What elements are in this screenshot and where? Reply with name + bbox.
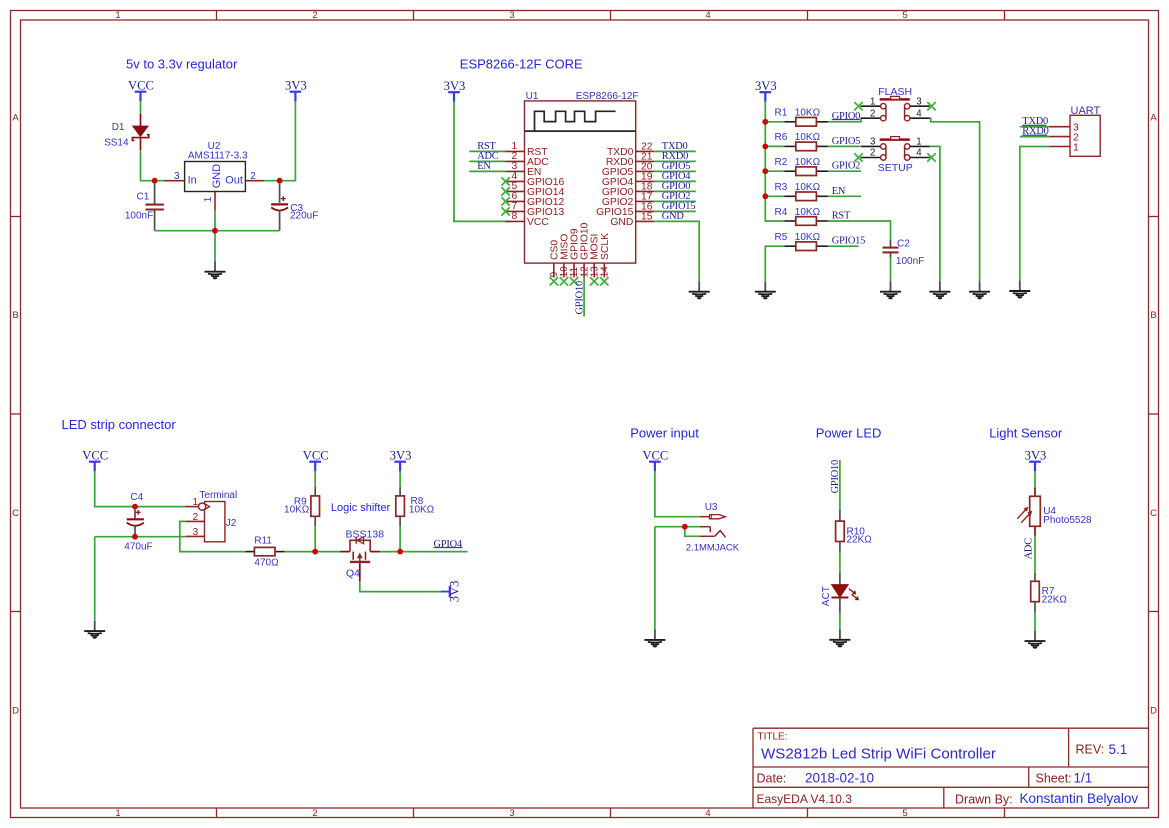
wire R1 to FLASH pin2 / net GPIO0 — [828, 111, 861, 122]
svg-text:B: B — [1150, 310, 1156, 321]
net stub GPIO5 (U1 pin 20) — [654, 161, 696, 172]
regulator U2 AMS1117-3.3 — [164, 141, 264, 210]
wire R6 to SETUP pin3 / net GPIO5 — [828, 136, 860, 147]
svg-text:10KΩ: 10KΩ — [795, 207, 821, 218]
svg-text:2: 2 — [870, 148, 875, 159]
wire R7 to ground — [1034, 613, 1036, 631]
net stub GPIO4 (U1 pin 19) — [654, 171, 696, 182]
svg-text:3: 3 — [870, 137, 875, 148]
svg-text:100nF: 100nF — [896, 256, 924, 267]
svg-text:1: 1 — [870, 96, 875, 107]
junction node C4 bottom — [132, 534, 138, 540]
svg-text:VCC: VCC — [303, 448, 329, 462]
net stub GPIO10 (U1 pin 12) — [574, 277, 585, 316]
U1 bottom pins 9-14 leads, names and numbers — [549, 222, 611, 277]
svg-text:Terminal: Terminal — [199, 490, 237, 501]
junction node In/C1 — [152, 178, 158, 184]
svg-text:GPIO2: GPIO2 — [832, 161, 860, 172]
svg-text:A: A — [12, 113, 19, 124]
svg-text:GPIO10: GPIO10 — [574, 281, 585, 314]
svg-text:C2: C2 — [897, 238, 910, 249]
wire R11 to Q4 — [285, 551, 340, 553]
no-connect SETUP pin4 — [927, 153, 935, 161]
svg-text:2: 2 — [250, 171, 256, 182]
svg-text:EN: EN — [477, 161, 491, 172]
svg-text:VCC: VCC — [128, 78, 154, 92]
wire rail to ground — [94, 537, 96, 621]
svg-text:1/1: 1/1 — [1074, 771, 1093, 786]
svg-text:Out: Out — [225, 175, 243, 187]
power flag VCC (regulator input) — [128, 78, 154, 101]
svg-text:8: 8 — [511, 211, 517, 222]
svg-text:GND: GND — [211, 164, 223, 189]
svg-text:2: 2 — [193, 512, 199, 523]
svg-text:1: 1 — [1073, 141, 1079, 153]
svg-text:SETUP: SETUP — [878, 162, 913, 174]
power flag VCC (R9) — [303, 448, 329, 471]
svg-text:5v to 3.3v regulator: 5v to 3.3v regulator — [126, 56, 238, 71]
svg-text:470Ω: 470Ω — [254, 558, 279, 569]
svg-text:C: C — [12, 508, 19, 519]
net stub GND (U1 pin 15) to ground — [654, 211, 699, 281]
wire 3V3 to U4 — [1034, 471, 1036, 487]
svg-text:Konstantin Belyalov: Konstantin Belyalov — [1020, 791, 1139, 806]
svg-text:TITLE:: TITLE: — [758, 732, 788, 743]
net stub GPIO2 at R2 — [828, 161, 861, 172]
svg-text:1: 1 — [916, 137, 921, 148]
svg-text:VCC: VCC — [527, 217, 549, 228]
ground (SETUP) — [929, 281, 950, 298]
no-connect flags U1 pins 9,10,11,13,14 — [550, 277, 609, 285]
capacitor C1 100nF — [125, 184, 164, 231]
resistor R2 10KOhm — [765, 157, 828, 176]
net stub GPIO0 (U1 pin 18) — [654, 181, 696, 192]
resistor R9 10KOhm — [284, 471, 319, 551]
svg-text:C4: C4 — [130, 492, 143, 503]
svg-text:1: 1 — [115, 808, 120, 819]
svg-text:ESP8266-12F: ESP8266-12F — [576, 91, 639, 102]
svg-text:GND: GND — [662, 211, 685, 222]
svg-text:4: 4 — [916, 108, 922, 119]
ground (FLASH) — [969, 281, 990, 298]
resistor R11 470Ohm — [245, 536, 284, 569]
ground (LED connector) — [84, 621, 105, 638]
ground (regulator) — [205, 261, 226, 278]
capacitor C2 100nF — [883, 238, 925, 281]
power flag 3V3 (regulator output) — [285, 78, 307, 101]
connector J2 Terminal — [185, 490, 237, 542]
wire 3V3 pull-up rail — [765, 102, 784, 221]
svg-text:1: 1 — [203, 196, 214, 202]
svg-text:3V3: 3V3 — [1025, 448, 1047, 462]
svg-text:3V3: 3V3 — [447, 581, 461, 603]
svg-text:B: B — [12, 310, 18, 321]
svg-text:2: 2 — [312, 10, 317, 21]
svg-text:U1: U1 — [526, 91, 539, 102]
svg-text:2: 2 — [870, 108, 875, 119]
net stub ADC (sensor divider) — [1023, 536, 1035, 573]
no-connect flags U1 pins 4-7 — [501, 177, 509, 215]
junction nodes on 3V3 rail — [762, 119, 768, 199]
net stub GPIO10 (LED drive) — [830, 460, 841, 510]
svg-text:220uF: 220uF — [290, 211, 318, 222]
net stub TXD0 (U1 pin 22) — [654, 141, 696, 152]
svg-text:10KΩ: 10KΩ — [795, 132, 821, 143]
svg-text:A: A — [1150, 113, 1157, 124]
svg-text:In: In — [188, 175, 197, 187]
wire ground rail C1-C3 — [155, 230, 280, 232]
U1 right pins 22-15 leads and numbers — [596, 142, 654, 228]
wire jack sleeve — [655, 527, 700, 537]
no-connect FLASH pin1 — [854, 102, 862, 110]
svg-text:10KΩ: 10KΩ — [795, 108, 821, 119]
barrel jack U3 2.1MMJACK — [686, 502, 740, 553]
svg-text:U3: U3 — [705, 502, 718, 513]
wire ground rail to J2 pin3 — [95, 536, 186, 538]
pushbutton FLASH — [861, 86, 930, 121]
svg-text:15: 15 — [641, 212, 653, 223]
wire VCC to J2 pin1 — [95, 471, 135, 506]
svg-text:D1: D1 — [112, 122, 125, 133]
ground (C2) — [880, 281, 901, 298]
svg-text:3: 3 — [174, 171, 180, 182]
svg-text:4: 4 — [705, 10, 710, 21]
svg-text:470uF: 470uF — [124, 542, 152, 553]
capacitor C3 220uF (polarized) — [271, 184, 318, 231]
wire rail to ground — [214, 231, 216, 262]
wire UART pin1 to ground — [1020, 147, 1050, 281]
svg-text:10KΩ: 10KΩ — [795, 182, 821, 193]
svg-text:WS2812b Led Strip WiFi Control: WS2812b Led Strip WiFi Controller — [761, 746, 996, 763]
capacitor C4 470uF (polarized) — [124, 492, 152, 553]
resistor R8 10KOhm — [396, 471, 435, 551]
junction node R9/R11 — [312, 549, 318, 555]
power flag 3V3 (pull-up rail) — [755, 79, 777, 102]
photoresistor U4 Photo5528 — [1017, 487, 1092, 535]
svg-text:5.1: 5.1 — [1109, 742, 1128, 757]
net stub GPIO2 (U1 pin 17) — [654, 191, 696, 202]
svg-text:R4: R4 — [775, 207, 788, 218]
svg-text:4: 4 — [705, 808, 710, 819]
svg-text:GND: GND — [610, 217, 633, 228]
junction node Out/C3 — [277, 178, 283, 184]
wire SETUP pin1 to ground — [930, 146, 940, 281]
svg-text:22KΩ: 22KΩ — [1042, 594, 1068, 605]
svg-text:3V3: 3V3 — [285, 78, 307, 92]
wire J2 pin2 to R11 — [180, 521, 246, 551]
wire U2 Out to 3V3 — [264, 101, 296, 180]
net stub RST (U1 pin1) — [469, 141, 505, 152]
svg-text:2.1MMJACK: 2.1MMJACK — [686, 542, 740, 553]
wire R5 to ground — [765, 246, 784, 281]
svg-text:10KΩ: 10KΩ — [795, 232, 821, 243]
wire sleeve to ground — [654, 527, 656, 630]
wire VCC to jack tip — [655, 471, 700, 516]
svg-text:Power LED: Power LED — [816, 426, 882, 441]
junction node ground rail — [212, 228, 218, 234]
svg-text:R2: R2 — [775, 157, 788, 168]
wire VCC to D1 — [140, 101, 142, 114]
svg-text:GPIO0: GPIO0 — [832, 111, 860, 122]
svg-text:FLASH: FLASH — [878, 86, 912, 98]
wire D1 to U2 In — [141, 150, 164, 181]
net stub ADC (U1 pin2) — [469, 151, 505, 162]
power flag 3V3 (R8) — [390, 448, 412, 471]
svg-text:10KΩ: 10KΩ — [409, 505, 435, 516]
resistor R3 10KOhm — [765, 182, 828, 201]
svg-text:3V3: 3V3 — [755, 79, 777, 93]
connector UART — [1050, 105, 1101, 157]
wire Q4 gate to 3V3 — [360, 581, 441, 592]
net stub EN at R3 — [828, 186, 861, 197]
wire to J2 pin1 — [135, 506, 185, 508]
svg-text:1: 1 — [115, 10, 120, 21]
power flag 3V3 (rotated, Q4 gate) — [441, 581, 461, 603]
svg-text:VCC: VCC — [82, 448, 108, 462]
svg-text:AMS1117-3.3: AMS1117-3.3 — [188, 150, 248, 161]
svg-text:GPIO5: GPIO5 — [832, 136, 860, 147]
wire LED to ground — [839, 613, 841, 630]
svg-text:3: 3 — [193, 527, 199, 538]
svg-text:5: 5 — [902, 808, 907, 819]
wire R4 to C2 / net RST — [828, 211, 891, 241]
antenna meander inside U1 — [525, 111, 636, 131]
power flag VCC (power input) — [642, 448, 668, 471]
svg-text:2018-02-10: 2018-02-10 — [805, 770, 874, 785]
junction node R8/GPIO4 — [397, 549, 403, 555]
net stub RXD0 (UART pin2) — [1020, 126, 1050, 137]
svg-text:ACT: ACT — [821, 586, 832, 606]
ESP module U1 ESP8266-12F body — [525, 91, 639, 263]
LED ACT — [821, 573, 859, 613]
svg-text:2: 2 — [312, 808, 317, 819]
svg-text:C: C — [1150, 508, 1157, 519]
ground (light sensor) — [1025, 631, 1046, 648]
svg-text:10KΩ: 10KΩ — [795, 157, 821, 168]
svg-text:3: 3 — [916, 96, 921, 107]
title block — [753, 728, 1149, 808]
svg-text:Light Sensor: Light Sensor — [989, 426, 1063, 441]
power flag 3V3 (light sensor) — [1025, 448, 1047, 471]
svg-text:VCC: VCC — [642, 448, 668, 462]
wire U2 GND pin to ground rail — [214, 210, 216, 230]
svg-text:LED strip connector: LED strip connector — [62, 417, 177, 432]
svg-text:R11: R11 — [254, 536, 272, 547]
svg-text:3: 3 — [509, 10, 514, 21]
svg-text:D: D — [1150, 706, 1157, 717]
svg-text:ESP8266-12F CORE: ESP8266-12F CORE — [460, 56, 583, 71]
wire R10 to LED — [839, 552, 841, 573]
svg-text:EN: EN — [832, 186, 846, 197]
svg-text:RST: RST — [832, 211, 851, 222]
U1 left pins 1-8 leads and numbers — [505, 141, 564, 228]
svg-text:100nF: 100nF — [125, 211, 153, 222]
wire Q4 to R8 / GPIO4 — [380, 551, 467, 553]
svg-text:4: 4 — [916, 148, 922, 159]
svg-text:R3: R3 — [775, 182, 788, 193]
no-connect SETUP pin2 — [854, 153, 862, 161]
ground (power input) — [644, 630, 665, 647]
svg-text:GPIO10: GPIO10 — [830, 460, 841, 493]
resistor R1 10KOhm — [765, 108, 828, 127]
wire 3V3 to U1 VCC pin — [454, 102, 511, 222]
net stub GPIO15 (U1 pin 16) — [654, 201, 696, 212]
net stub RXD0 (U1 pin 21) — [654, 151, 696, 162]
power flag 3V3 (ESP supply) — [444, 79, 466, 102]
svg-text:3V3: 3V3 — [444, 79, 466, 93]
svg-text:GPIO15: GPIO15 — [832, 236, 865, 247]
power flag VCC (LED connector) — [82, 448, 108, 471]
svg-text:14: 14 — [600, 266, 611, 277]
diode D1 SS14 (schottky) — [104, 114, 149, 150]
svg-text:3: 3 — [509, 808, 514, 819]
svg-text:22KΩ: 22KΩ — [847, 534, 873, 545]
no-connect FLASH pin3 — [927, 102, 935, 110]
svg-text:10KΩ: 10KΩ — [284, 505, 310, 516]
svg-text:Power input: Power input — [630, 426, 699, 441]
svg-text:Photo5528: Photo5528 — [1043, 515, 1092, 526]
ground (R5) — [755, 281, 776, 298]
net stub EN (U1 pin3) — [469, 161, 505, 172]
net stub GPIO15 at R5 — [828, 236, 865, 247]
svg-text:BSS138: BSS138 — [346, 529, 385, 541]
resistor R4 10KOhm — [775, 207, 828, 226]
svg-text:Logic shifter: Logic shifter — [331, 502, 391, 514]
svg-text:REV:: REV: — [1076, 743, 1105, 757]
svg-text:UART: UART — [1071, 105, 1101, 117]
svg-text:ADC: ADC — [1023, 538, 1034, 560]
svg-text:1: 1 — [193, 497, 199, 508]
ground (UART) — [1009, 281, 1030, 298]
svg-text:SCLK: SCLK — [600, 233, 611, 260]
ground (power LED) — [829, 629, 850, 646]
svg-text:3V3: 3V3 — [390, 448, 412, 462]
svg-text:5: 5 — [902, 10, 907, 21]
MOSFET Q4 BSS138 — [340, 529, 384, 581]
svg-text:Q4: Q4 — [346, 568, 360, 580]
svg-text:EasyEDA V4.10.3: EasyEDA V4.10.3 — [757, 792, 853, 806]
resistor R7 22KOhm — [1031, 573, 1068, 613]
svg-text:Date:: Date: — [757, 771, 787, 785]
net stub TXD0 (UART pin3) — [1020, 116, 1050, 127]
svg-text:SS14: SS14 — [104, 138, 129, 149]
svg-text:J2: J2 — [226, 518, 237, 529]
svg-text:GPIO4: GPIO4 — [434, 539, 463, 550]
svg-text:Drawn By:: Drawn By: — [955, 793, 1013, 807]
svg-text:D: D — [12, 706, 19, 717]
svg-text:C1: C1 — [137, 192, 150, 203]
svg-text:R1: R1 — [775, 108, 788, 119]
pushbutton SETUP — [861, 137, 930, 175]
svg-text:R5: R5 — [775, 232, 788, 243]
junction node jack sleeve — [682, 524, 688, 530]
resistor R6 10KOhm — [765, 132, 828, 151]
junction node C4 top — [132, 504, 138, 510]
svg-text:Sheet:: Sheet: — [1036, 772, 1072, 786]
svg-text:R6: R6 — [775, 132, 788, 143]
resistor R10 22KOhm — [836, 510, 873, 552]
resistor R5 10KOhm — [775, 232, 828, 251]
wire FLASH pin4 to ground — [930, 118, 980, 281]
ground (U1 GND) — [689, 281, 710, 298]
